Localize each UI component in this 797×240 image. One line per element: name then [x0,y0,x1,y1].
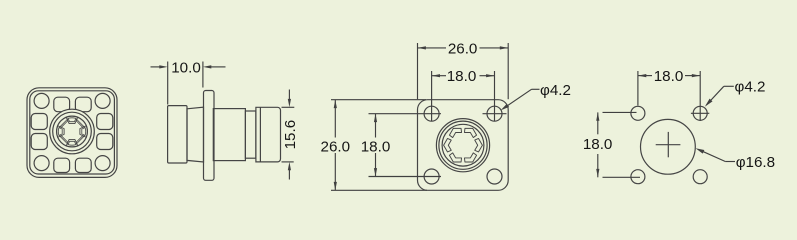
view1 flange body inner outline [30,91,115,174]
dim 18.0 top line right [480,75,495,77]
dim 15.6 tail top [288,90,290,101]
dim 18.0 v4 ext right [699,71,701,121]
dim 26.0 top line left [418,47,447,49]
view1 socket bore circle [57,116,88,147]
view2 front ring edge line [259,107,261,162]
dim 26.0 top arrow right [500,46,508,49]
view3 flange outline [418,100,509,191]
view3 hole bottom-left [424,169,439,184]
dim 18.0 v4 left arrow top [596,112,599,120]
view2 tapered section [187,107,204,162]
leader phi16.8 horizontal [725,161,735,163]
dim 15.6 extension line top [282,106,295,108]
view1 mounting hole bottom-left [34,156,49,171]
dim 18.0 v4 left arrow bottom [596,169,599,177]
view1 socket castellation [80,126,88,138]
view1 mounting hole bottom-right [95,156,110,171]
view2 main cylinder [213,109,245,161]
dim 26.0 top line right [480,47,509,49]
leader phi4.2 v4 diagonal [706,86,724,105]
dim 26.0 left arrow top [334,100,337,108]
view4 hole top-right centermark [691,112,709,114]
dim 18.0 top arrow right [486,74,494,77]
svg-text:φ4.2: φ4.2 [540,82,571,99]
view1 pocket bottom A [54,158,70,172]
dim 18.0 left arrow top [374,114,377,122]
dim 18.0 left line upper [375,114,377,138]
svg-text:26.0: 26.0 [321,139,351,156]
view2 groove neck [245,111,256,158]
view4 hole top-left [631,106,645,120]
dim 18.0 top line left [432,75,446,77]
leader phi16.8 arrow [696,148,705,153]
view3 hole top-left [424,106,439,121]
view3 center inner circle [442,124,484,166]
dim 18.0 v4 arrow left [638,74,646,77]
leader phi4.2 v4 horizontal [724,85,734,87]
dim 18.0 v4 left line upper [597,112,599,134]
dim 18.0 v4 line left [638,75,652,77]
view1 pocket right B [97,134,113,150]
view1 mounting hole top-left [34,93,49,108]
dim 26.0 left ext top [331,99,426,101]
view2 flange edge-on [204,91,215,181]
view3 hole bottom-right [487,169,502,184]
svg-text:18.0: 18.0 [361,139,391,156]
view1 center boss outer circle [50,109,95,154]
dim 18.0 top ext left [431,71,433,121]
view1 pocket top A [54,97,70,112]
view4 hole bottom-left [631,170,645,184]
view2 front ring [256,107,281,162]
svg-text:φ4.2: φ4.2 [735,79,766,96]
dim 18.0 v4 ext left [637,71,639,106]
dim 10.0 tail left [151,66,161,68]
svg-text:18.0: 18.0 [583,136,613,153]
view1 pocket bottom B [75,158,91,172]
svg-text:18.0: 18.0 [447,68,477,85]
dim 18.0 left ext top [369,113,442,115]
dim 18.0 left ext bottom [369,176,442,178]
view4 hole top-right [693,106,707,120]
view1 mounting hole top-right [95,93,110,108]
view4 cutout crosshair horizontal [656,144,681,146]
dim 18.0 left line lower [375,153,377,177]
dim 15.6 extension line bottom [282,161,294,163]
view1 pocket left A [31,114,47,130]
view3 socket castellation [475,138,483,151]
dim 18.0 v4 left ext bottom [603,176,641,178]
dim 26.0 left arrow bottom [334,182,337,190]
dim 26.0 left line upper [334,100,336,138]
leader phi4.2 v3 horizontal [532,88,540,90]
view1 pocket right A [97,114,113,130]
dim 18.0 top arrow left [432,74,440,77]
view2 rear body [168,106,187,163]
dim 18.0 left arrow bottom [374,168,377,176]
dim 26.0 left line lower [334,153,336,190]
leader phi4.2 v3 diagonal [503,89,532,109]
view1 pocket top B [75,97,91,112]
dim 10.0 arrow right [203,65,211,68]
view3 center outer circle [436,119,489,172]
dim 10.0 tail right [210,66,225,68]
dim 18.0 v4 arrow right [692,74,700,77]
dim 10.0 extension line right [202,62,204,88]
svg-text:φ16.8: φ16.8 [736,154,775,171]
view4 hole bottom-right [693,170,707,184]
dim 18.0 top ext right [494,71,496,121]
view4 main cutout circle [641,119,696,174]
svg-text:15.6: 15.6 [282,120,299,150]
leader phi4.2 v4 arrow [705,99,713,107]
dim 15.6 arrow top [288,99,291,107]
view3 hole top-right centermark [483,113,507,115]
dim 15.6 tail bottom [288,169,290,179]
view1 flange body outer outline [27,88,117,178]
view3 center middle circle [439,121,487,169]
svg-text:26.0: 26.0 [448,40,478,57]
svg-text:10.0: 10.0 [171,59,201,76]
svg-text:18.0: 18.0 [654,68,684,85]
dim 10.0 extension line left [167,62,169,105]
dim 18.0 v4 left ext top [603,111,637,113]
dim 26.0 top ext left [417,43,419,99]
dim 18.0 v4 left line lower [597,154,599,177]
view4 cutout crosshair vertical [667,132,669,157]
dim 26.0 top ext right [507,43,509,99]
leader phi16.8 diagonal [703,151,726,161]
dim 10.0 arrow left [159,65,167,68]
leader phi4.2 v3 arrow [501,104,509,111]
dim 26.0 left ext bottom [331,189,427,191]
view3 hole top-right [487,106,502,121]
view1 center boss inner circle [53,112,92,151]
dim 26.0 top arrow left [418,46,426,49]
dim 15.6 arrow bottom [288,162,291,170]
dim 18.0 v4 line right [685,75,700,77]
view1 pocket left B [31,134,47,150]
